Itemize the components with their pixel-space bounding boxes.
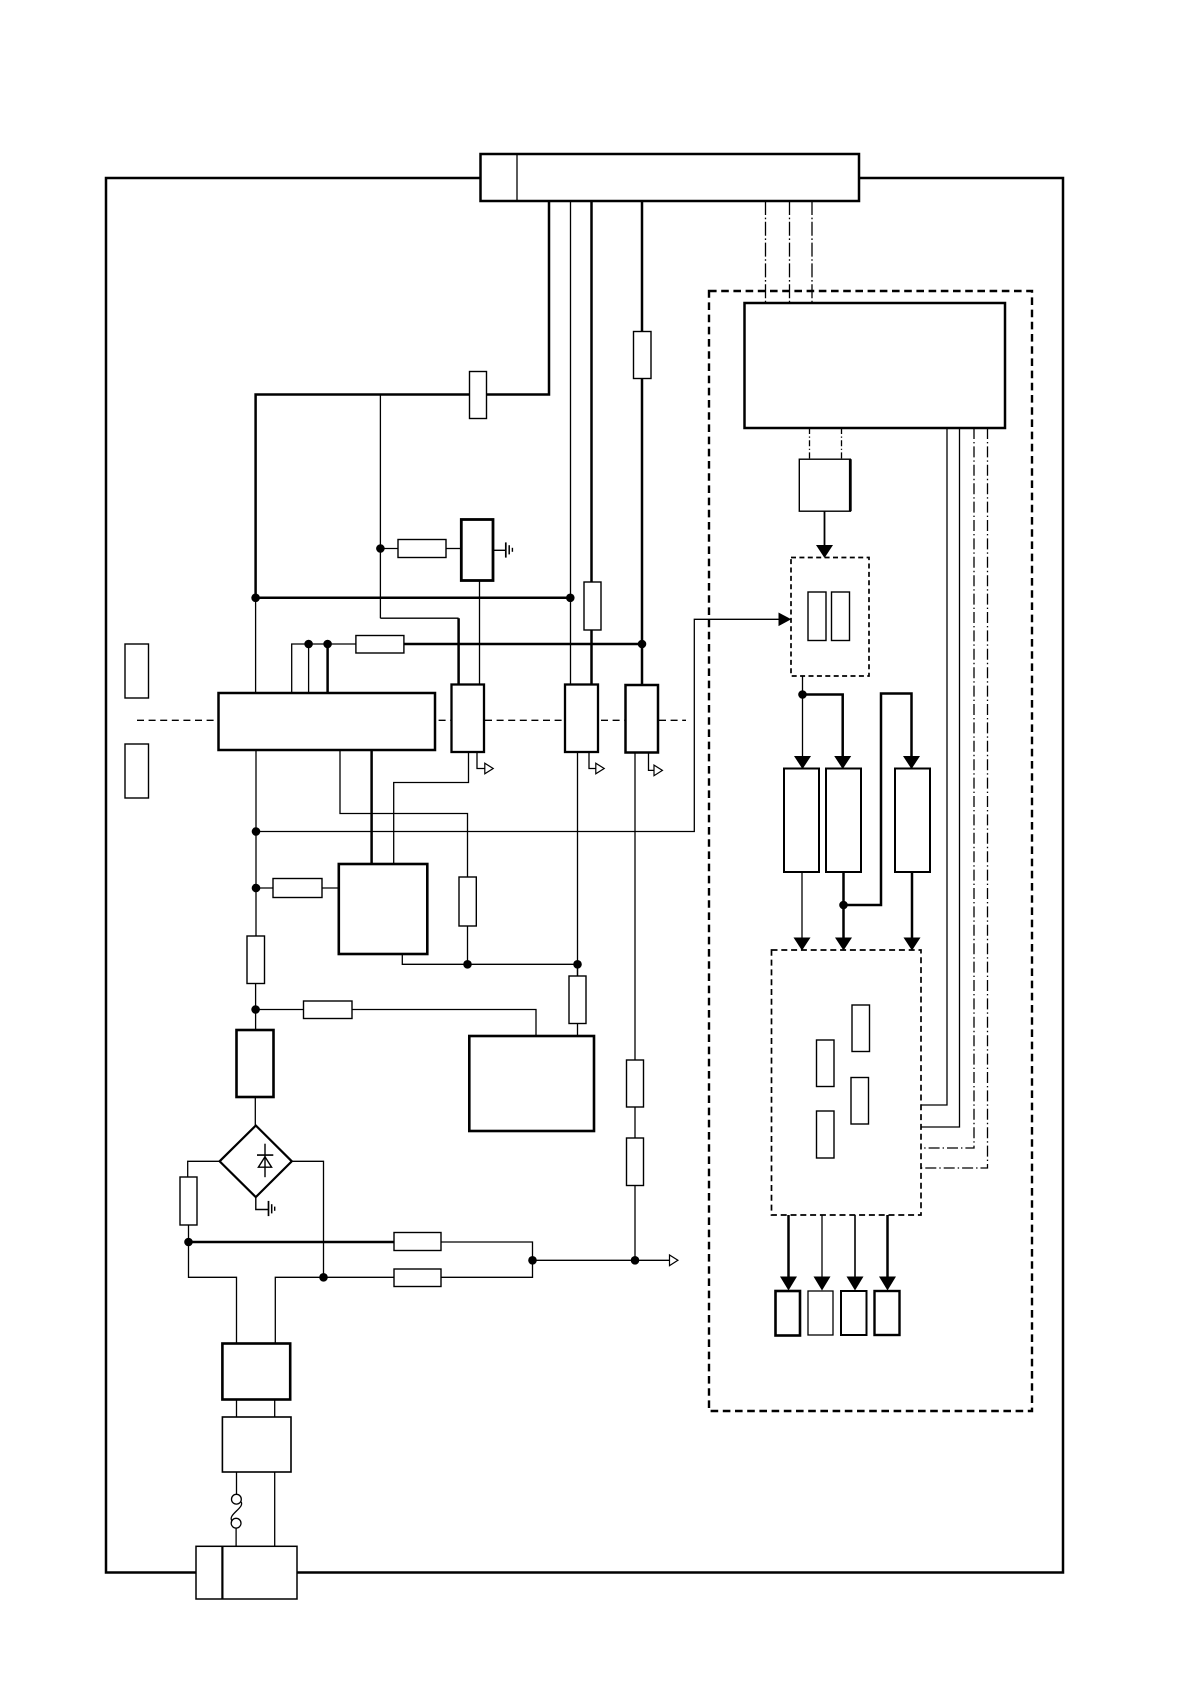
resistor R10 (vertical, on box3 output): [627, 1060, 644, 1107]
IC2 block (square): [339, 864, 428, 954]
resistor R9 (vertical): [569, 976, 586, 1024]
wire: bus drop to R2 (bold): [641, 201, 644, 333]
wire: dash-dot feed line 3 from IC1: [921, 428, 974, 1148]
relay contact 2: [832, 592, 850, 641]
load block M4: [875, 1291, 900, 1335]
arrow A11: [847, 1277, 864, 1291]
regulator box2: [565, 685, 598, 753]
wire: node to motor box (bold): [842, 905, 845, 939]
wire: box1 output elbow into IC2: [394, 752, 469, 865]
arrow A10: [814, 1277, 831, 1291]
wire: dash-dot control lines from connector to IC1: [765, 201, 767, 303]
wire: R15 to node: [441, 1260, 533, 1277]
ground G2 (below D1): [256, 1197, 275, 1216]
AC inlet connector J4 (bottom box on border): [196, 1546, 297, 1599]
arrow A5 (into rect3): [903, 756, 920, 769]
arrow A7: [835, 938, 852, 951]
wire: node y=1009.5 to R7 and box4: [256, 1009, 304, 1011]
arrow A12: [879, 1277, 896, 1291]
wire: R14 to node: [441, 1242, 533, 1260]
arrow A1 (filled, into relay box): [816, 545, 833, 558]
driver block U2 (small box): [799, 459, 850, 511]
wire: node to R9: [577, 964, 579, 976]
wire: R2 to node B3 (bold): [641, 378, 644, 687]
resistor R6 (left chain vertical): [247, 936, 265, 984]
junction dots: [184, 544, 848, 1281]
heater rect3 (tall): [895, 769, 930, 873]
filter block L2 (box B): [222, 1417, 291, 1472]
wire: rect2 bottom to node (bold): [842, 872, 845, 905]
wire: R6 to node: [255, 984, 257, 1031]
load block M2: [808, 1291, 833, 1335]
wire: feedback line y=644 (thin left part with taps): [292, 644, 356, 693]
ground G1 (chassis, right of T1): [493, 542, 512, 557]
wire: rect1 bottom to motor box (thin): [801, 872, 803, 939]
filter block L1 (box A): [222, 1344, 290, 1400]
arrow A9: [780, 1277, 797, 1291]
wire: box B right pin to AC inlet: [274, 1472, 276, 1547]
wire: IC1 to driver block (dash-dot pair): [809, 428, 811, 459]
wire: R3 leads: [380, 548, 398, 550]
connector block J2 (left upper): [125, 644, 149, 698]
wire: R8 top lead: [467, 926, 469, 964]
load block M3: [841, 1291, 867, 1335]
wire: R7 to box4 top: [352, 1010, 536, 1038]
wire: node bus horizontal y=598 (bold): [256, 597, 571, 600]
resistor R7: [304, 1001, 353, 1019]
block box4 (lower middle): [469, 1036, 594, 1131]
J1 divider: [516, 154, 518, 201]
resistor R11 (vertical): [627, 1138, 644, 1186]
resistor R13 (vertical): [180, 1177, 197, 1225]
mains connector J1 (top box on border): [481, 154, 860, 201]
regulator box3: [626, 685, 659, 753]
wire: relay out to node: [802, 676, 804, 695]
wire: elbow into box1 top: [380, 617, 458, 619]
IC1 main control block (right side): [745, 303, 1006, 428]
wire: box1 arrow-out lead: [477, 752, 485, 769]
component C5 block (above diamond): [237, 1030, 274, 1097]
wire: box3 long output down to R10: [634, 753, 636, 1061]
wire: motor box output 2 (thin): [821, 1215, 823, 1278]
connector block J3 (left lower): [125, 744, 149, 798]
secondary-side dashed enclosure: [709, 291, 1032, 1411]
motor coil a: [852, 1005, 870, 1052]
wire: R13 to node: [188, 1225, 190, 1242]
chassis border frame: [106, 178, 1063, 1573]
connector arrow out4 (open): [670, 1255, 678, 1266]
wire: box A to box B pins: [236, 1400, 238, 1418]
resistor R2 (on drop x=642): [634, 332, 652, 379]
wire: box3 arrow-out lead: [649, 753, 655, 771]
heater rect2 (tall): [826, 769, 861, 873]
wire: node right then down to rect2 (bold): [803, 695, 843, 758]
wire: motor box output 3: [854, 1215, 856, 1278]
wire: tap from bus to R3 (thin): [379, 395, 381, 619]
motor coil d: [817, 1111, 835, 1158]
wire: box2 arrow-out lead: [589, 752, 596, 769]
wire: rect3 bottom to motor box (bold): [911, 872, 914, 939]
wire: bus drop to R4 (bold): [590, 201, 593, 583]
wire: node down to rect1 (thin): [802, 695, 804, 758]
wire: left elbow to box A pin1: [189, 1242, 237, 1344]
resistor R5 (on y=644 line): [356, 636, 404, 654]
wire: PSU bottom pin x=256 down chain: [255, 750, 257, 936]
J4 divider: [221, 1546, 223, 1599]
wire: main bus drop from connector (bold): [256, 201, 549, 598]
wire: T1 bottom to box1 top (thin): [479, 581, 481, 687]
motor assembly dashed box: [772, 950, 922, 1215]
connector arrow out2 (open): [596, 763, 604, 774]
resistor R8 (vertical): [459, 877, 476, 926]
wire: motor box output 4 (bold): [886, 1215, 889, 1278]
wire: IC2 bottom step to node: [402, 954, 577, 964]
wire: PSU pin x=340 elbow to R8: [340, 750, 468, 877]
resistor R3: [398, 540, 446, 558]
wire: D1 left lead to R13: [188, 1161, 220, 1177]
wire: bus to box2 (thin): [570, 201, 572, 685]
motor coil c: [851, 1078, 869, 1125]
connector arrow out3 (open): [654, 765, 662, 776]
motor coil b: [817, 1040, 835, 1087]
wire: R11 to node y=1260: [634, 1186, 636, 1261]
wire: solid feed line 2 from IC1: [921, 428, 960, 1127]
wire: R10 to R11: [634, 1107, 636, 1138]
resistor R4 (on drop x=591.5): [584, 582, 601, 630]
wire: R4 to box2 (bold): [590, 630, 593, 686]
wire: motor box output 1 (bold): [787, 1215, 790, 1278]
arrow A4 (into rect2): [834, 756, 851, 769]
heater rect1 (tall): [784, 769, 819, 873]
fuse F1 (two circles with S link): [231, 1494, 242, 1528]
relay RY1 dashed box: [791, 558, 869, 677]
wire: U2 down arrow to relay box: [824, 511, 826, 546]
arrow A8: [904, 938, 921, 951]
wire: fuse to AC inlet: [235, 1528, 237, 1547]
load block M1: [776, 1291, 801, 1336]
resistor R15 (on y=1277): [394, 1269, 441, 1287]
wire: box2 long output to R9: [577, 752, 579, 976]
wire: node to arrow-out (y=1260): [533, 1259, 670, 1261]
wire: C5 block to D1 top: [254, 1097, 256, 1126]
wire: R9 to box4 top: [577, 1024, 579, 1038]
bridge rectifier D1 (diamond): [220, 1126, 292, 1198]
resistor R12 (horizontal into IC2 left): [273, 879, 322, 898]
wire: sense line y=831.5 to relay arrow: [256, 619, 782, 831]
resistor R1 (series element on bus wire): [470, 372, 487, 419]
wire: AC line y=1277 right segment: [275, 1277, 394, 1344]
arrow A2 (filled, from sense line into relay box): [779, 613, 792, 627]
arrow A6: [794, 938, 811, 951]
wire: down to PSU block top: [255, 598, 257, 694]
PSU regulator block U1 (long box): [219, 693, 436, 750]
transformer T1 (vertical block): [461, 520, 493, 581]
wire: D1 right lead down: [292, 1161, 324, 1277]
wire: dash-dot feed line 4 from IC1: [921, 428, 988, 1168]
diode symbol inside D1: [257, 1144, 273, 1178]
arrow A3 (into rect1): [794, 756, 811, 769]
wire: PSU pin x=371.6 to IC2 (bold): [370, 750, 373, 865]
wire: n-path from node below rect2 to rect3 (bold): [844, 694, 912, 906]
isolation dashed line (hot/cold barrier): [137, 719, 686, 721]
relay contact 1: [808, 592, 826, 641]
wire: R5 to node B3 (bold): [404, 643, 642, 646]
wire: AC line y=1242 (bold): [189, 1241, 395, 1244]
connector arrow out1 (open): [485, 763, 493, 774]
regulator box1: [452, 685, 485, 753]
resistor R14 (on y=1242): [394, 1233, 441, 1251]
wire: box B left pin to fuse: [236, 1472, 238, 1494]
wire: solid feed line 1 from IC1: [921, 428, 947, 1105]
